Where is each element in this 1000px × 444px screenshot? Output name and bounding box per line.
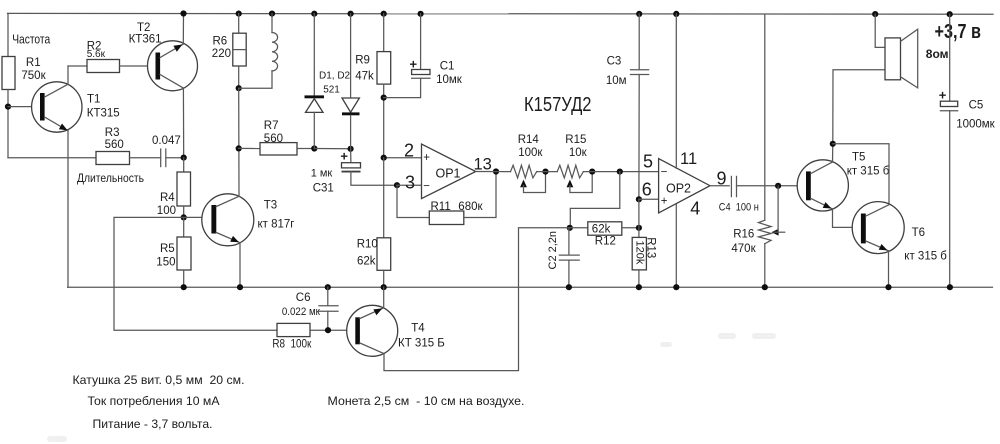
wire collector link xyxy=(833,144,889,205)
transistor T6 base bar xyxy=(861,214,866,244)
svg-text:R14: R14 xyxy=(518,134,540,146)
label T4 xyxy=(411,322,425,334)
potentiometer R15 xyxy=(557,134,592,192)
label R2 xyxy=(87,40,102,52)
svg-text:Ток потребления 10 мА: Ток потребления 10 мА xyxy=(88,394,220,408)
svg-text:+3,7 в: +3,7 в xyxy=(935,21,982,43)
note coil spec xyxy=(73,373,245,387)
svg-text:R12: R12 xyxy=(595,236,616,248)
svg-text:R9: R9 xyxy=(355,54,370,66)
svg-text:R6: R6 xyxy=(213,36,228,48)
inductor coil L1 xyxy=(239,14,278,89)
node pin13 output junction xyxy=(493,168,499,174)
svg-text:2: 2 xyxy=(404,141,414,161)
wire T4 emitter riser xyxy=(384,228,570,371)
label pin 3 xyxy=(405,173,415,193)
node pin4 on ground rail xyxy=(673,284,679,290)
resistor R9 xyxy=(355,14,391,84)
svg-text:C31: C31 xyxy=(313,182,334,194)
svg-text:5: 5 xyxy=(643,151,653,171)
label pin 2 xyxy=(404,141,414,161)
svg-text:OP1: OP1 xyxy=(436,167,461,181)
wire R12 to R13 node xyxy=(622,227,639,229)
label T5 xyxy=(852,151,865,163)
svg-text:Монета 2,5 см - 10 см на возд: Монета 2,5 см - 10 см на воздухе. xyxy=(328,394,525,408)
transistor T5 collector xyxy=(811,162,833,174)
wire node to R7 xyxy=(239,147,260,149)
svg-text:521: 521 xyxy=(323,84,340,95)
wire C 0.047 to node xyxy=(166,157,184,159)
svg-text:1000мк: 1000мк xyxy=(956,119,995,131)
node R14 wiper junction xyxy=(542,169,548,175)
svg-text:R10: R10 xyxy=(357,239,378,251)
label KT315 xyxy=(87,108,120,120)
node R15 wiper junction xyxy=(589,169,595,175)
transistor T5 emitter xyxy=(811,199,833,209)
node pin6 junction xyxy=(636,196,642,202)
svg-text:R8 100к: R8 100к xyxy=(272,338,312,350)
node pin3 junction xyxy=(394,182,422,188)
wire pin11 power xyxy=(675,14,677,168)
svg-text:T2: T2 xyxy=(137,22,150,34)
node R5 on ground rail xyxy=(181,284,187,290)
svg-text:560: 560 xyxy=(264,133,283,145)
svg-text:C4 100 н: C4 100 н xyxy=(719,202,759,214)
node R9 top on rail xyxy=(381,11,387,17)
node coil top on rail xyxy=(269,11,275,17)
svg-text:4: 4 xyxy=(690,198,700,218)
node T3 base junction xyxy=(181,214,187,220)
transistor T2 circle xyxy=(148,41,198,91)
wire T4 collector up xyxy=(383,287,385,308)
wire R4 bottom xyxy=(183,206,185,217)
transistor T1 circle xyxy=(32,82,82,132)
wire T6 emitter down xyxy=(888,251,890,287)
transistor T3 circle xyxy=(202,194,254,246)
node C3 top on rail xyxy=(636,11,642,17)
wire bottom ground rail xyxy=(68,286,993,288)
svg-text:560: 560 xyxy=(105,139,124,151)
svg-text:120k: 120k xyxy=(633,241,645,265)
wire R5 bottom xyxy=(183,270,185,287)
label 1 мк xyxy=(311,168,333,180)
svg-text:9: 9 xyxy=(717,168,727,188)
svg-text:КТ315: КТ315 xyxy=(87,108,120,120)
svg-text:0.022 мк: 0.022 мк xyxy=(282,306,320,318)
node R10-T4 collector on rail xyxy=(381,284,387,290)
label pin 5 xyxy=(643,151,653,171)
svg-text:КТ361: КТ361 xyxy=(129,34,162,46)
transistor T3 collector xyxy=(216,196,239,206)
label 8ом xyxy=(926,47,949,61)
wire R2 left xyxy=(68,65,87,67)
wire OP1 output xyxy=(476,171,511,173)
node R1-T1 base junction xyxy=(5,104,11,110)
svg-text:C2 2,2n: C2 2,2n xyxy=(547,231,559,270)
wire R10 bottom xyxy=(383,270,385,287)
node C1 top on rail xyxy=(418,11,424,17)
transistor T5 circle xyxy=(797,160,848,211)
svg-text:R13: R13 xyxy=(645,237,657,258)
wire R7 to D1 xyxy=(297,148,314,150)
node C1 branch junction xyxy=(381,95,387,101)
wire pin6 stub xyxy=(639,198,659,200)
node C5 top on rail xyxy=(947,11,953,17)
wire pin4 ground xyxy=(675,204,677,287)
svg-text:T3: T3 xyxy=(264,200,277,212)
transistor T6 circle xyxy=(852,202,904,254)
wire R15 to pin5 xyxy=(583,171,658,173)
note power xyxy=(93,417,213,431)
svg-text:47k: 47k xyxy=(355,70,374,82)
diode D1 xyxy=(305,14,325,149)
svg-text:62k: 62k xyxy=(592,224,611,236)
wire C3 node down xyxy=(638,199,640,228)
transistor T3 emitter xyxy=(216,233,240,243)
node C2 top junction xyxy=(567,225,573,231)
svg-text:100: 100 xyxy=(157,205,176,217)
label +3,7 в xyxy=(935,21,982,43)
wire R6 bottom xyxy=(238,66,240,88)
capacitor C3 xyxy=(606,14,649,199)
svg-text:3: 3 xyxy=(405,173,415,193)
node D1 top on rail xyxy=(311,11,317,17)
wire R6 node down to T3 collector xyxy=(238,88,240,196)
svg-text:1 мк: 1 мк xyxy=(311,168,333,180)
resistor R5 xyxy=(156,217,191,270)
svg-text:+: + xyxy=(661,195,668,207)
svg-text:R15: R15 xyxy=(565,134,586,146)
resistor R13 xyxy=(632,228,656,270)
capacitor C31 xyxy=(340,148,397,185)
resistor R7 xyxy=(260,120,297,155)
node pin2 junction xyxy=(381,155,387,161)
wire R2 to T2 base xyxy=(120,65,156,67)
op-amp OP2 xyxy=(659,159,710,213)
wire left rail upper xyxy=(7,13,9,56)
svg-text:+: + xyxy=(423,152,430,164)
speaker LS1 xyxy=(885,29,918,88)
svg-text:+: + xyxy=(340,148,348,163)
label T4 type xyxy=(398,338,445,350)
node pin11 on rail xyxy=(673,11,679,17)
wire pin2 input xyxy=(384,157,422,159)
label T3 xyxy=(264,200,277,212)
capacitor C6 xyxy=(282,287,338,330)
resistor R1 xyxy=(2,57,47,90)
wire T3 base xyxy=(114,217,277,330)
svg-text:10м: 10м xyxy=(606,75,627,87)
node D2 top on rail xyxy=(348,11,354,17)
svg-text:R5: R5 xyxy=(160,243,175,255)
wire T5 emitter to T6 base xyxy=(833,209,861,228)
label T5 type xyxy=(847,166,890,178)
svg-text:T6: T6 xyxy=(912,227,925,239)
transistor T4 base bar xyxy=(355,317,360,344)
wire R8 to T4 base xyxy=(310,329,355,331)
label Частота xyxy=(12,33,50,47)
svg-text:кт 315 б: кт 315 б xyxy=(847,166,890,178)
svg-text:Питание - 3,7 вольта.: Питание - 3,7 вольта. xyxy=(93,417,213,431)
transistor T2 base bar xyxy=(156,53,161,80)
node R7 branch junction xyxy=(236,145,242,151)
label KT361 xyxy=(129,34,162,46)
svg-text:R1: R1 xyxy=(26,57,41,69)
transistor T6 emitter xyxy=(866,241,889,251)
transistor T4 collector xyxy=(360,308,384,319)
svg-text:+: + xyxy=(939,88,947,103)
svg-text:8ом: 8ом xyxy=(926,47,949,61)
wire T3 emitter down xyxy=(239,243,241,288)
capacitor C2 xyxy=(547,228,579,287)
svg-text:Катушка 25 вит. 0,5 мм 20 см.: Катушка 25 вит. 0,5 мм 20 см. xyxy=(73,373,245,387)
label T2 xyxy=(137,22,150,34)
transistor T2 collector xyxy=(160,75,183,89)
diode D2 xyxy=(342,14,360,149)
potentiometer R14 xyxy=(511,134,546,192)
svg-text:220: 220 xyxy=(212,48,231,60)
node T2 emitter on rail xyxy=(180,10,186,16)
node C2 on ground rail xyxy=(566,284,572,290)
resistor R11 feedback xyxy=(397,172,496,225)
wire left to R3 xyxy=(8,157,96,159)
wire T1 emitter down xyxy=(67,131,69,288)
node T5 base junction xyxy=(775,183,781,189)
resistor R4 xyxy=(157,158,191,218)
label 521 xyxy=(323,84,340,95)
svg-text:11: 11 xyxy=(680,150,697,168)
svg-text:кт 817г: кт 817г xyxy=(258,218,295,230)
svg-text:К157УД2: К157УД2 xyxy=(524,94,592,116)
svg-text:10мк: 10мк xyxy=(436,74,463,86)
svg-text:−: − xyxy=(661,166,668,178)
label pin 9 xyxy=(717,168,727,188)
svg-text:470к: 470к xyxy=(731,243,756,255)
transistor T4 circle xyxy=(347,305,398,356)
label D1, D2 xyxy=(319,71,351,82)
svg-text:C5: C5 xyxy=(969,100,984,112)
node D2-C31 junction xyxy=(348,146,354,152)
label 0.047 xyxy=(152,135,181,147)
svg-text:10к: 10к xyxy=(569,147,588,159)
resistor R2 xyxy=(87,60,120,73)
node R16 on ground rail xyxy=(762,284,768,290)
node D1 bottom junction xyxy=(311,145,317,151)
capacitor 0.047 xyxy=(161,149,166,167)
smudge artifacts xyxy=(47,333,776,442)
transistor T1 base bar xyxy=(40,93,45,121)
wire R14 to R15 xyxy=(537,171,558,173)
capacitor C1 xyxy=(384,14,463,98)
node pin5 loop junction xyxy=(617,169,623,175)
label R3 xyxy=(105,127,120,139)
resistor R8 xyxy=(272,323,312,350)
potentiometer R16 xyxy=(731,14,784,287)
svg-text:кт 315 б: кт 315 б xyxy=(904,250,947,262)
label R3 value 560 xyxy=(105,139,124,151)
node T3 emitter on rail xyxy=(237,284,243,290)
resistor R10 xyxy=(357,158,391,271)
wire pin5 feedback loop xyxy=(570,172,620,228)
label Длительность xyxy=(77,171,144,185)
svg-text:Длительность: Длительность xyxy=(77,171,144,185)
svg-text:100к: 100к xyxy=(518,147,543,159)
wire R3 to C 0.047 xyxy=(130,157,161,159)
svg-text:T4: T4 xyxy=(411,322,425,334)
node C6 top on rail xyxy=(325,284,331,290)
wire speaker top terminal xyxy=(875,14,885,47)
node speaker top on rail xyxy=(872,11,878,17)
svg-text:T1: T1 xyxy=(87,93,100,105)
svg-text:150: 150 xyxy=(156,256,175,268)
transistor T6 collector xyxy=(866,205,889,216)
svg-text:T5: T5 xyxy=(852,151,865,163)
svg-text:R3: R3 xyxy=(105,127,120,139)
node coil-R6 junction xyxy=(236,85,242,91)
op-amp OP1 xyxy=(422,144,476,199)
capacitor C5 xyxy=(939,14,996,287)
svg-text:R7: R7 xyxy=(264,120,279,132)
label pin 4 xyxy=(690,198,700,218)
label pin 13 xyxy=(474,156,492,174)
label 5.6k xyxy=(87,49,106,60)
svg-text:C1: C1 xyxy=(440,61,455,73)
wire C4 to T5 base xyxy=(737,185,807,187)
svg-text:R16: R16 xyxy=(733,229,754,241)
wire R13 bottom xyxy=(638,270,640,287)
svg-text:C3: C3 xyxy=(607,55,622,67)
node C5 on ground rail xyxy=(947,284,953,290)
label kt817 xyxy=(258,218,295,230)
transistor T3 base bar xyxy=(211,205,216,234)
svg-text:R11: R11 xyxy=(431,201,451,213)
note current xyxy=(88,394,220,408)
transistor T1 collector xyxy=(45,66,68,97)
svg-text:680к: 680к xyxy=(458,201,483,213)
node R4 top junction xyxy=(181,155,187,161)
svg-text:+: + xyxy=(410,57,418,72)
resistor R3 xyxy=(96,152,130,165)
svg-text:R4: R4 xyxy=(160,192,175,204)
note coin range xyxy=(328,394,525,408)
wire OP2 output xyxy=(710,185,729,187)
node R12-R13 junction xyxy=(636,225,642,231)
label T6 xyxy=(912,227,925,239)
label pin 11 xyxy=(680,150,697,168)
svg-text:6: 6 xyxy=(642,180,652,200)
resistor R6 xyxy=(212,14,246,66)
node T5-T6 collector junction xyxy=(830,141,836,147)
node R6 top on rail xyxy=(236,11,242,17)
transistor T2 emitter xyxy=(160,44,183,58)
label C31 xyxy=(313,182,334,194)
label К157УД2 xyxy=(524,94,592,116)
transistor T5 base bar xyxy=(806,171,811,200)
wire T2 collector down xyxy=(182,88,184,158)
capacitor C4 xyxy=(719,176,759,213)
wire T2 emitter up xyxy=(182,14,184,45)
node C6 bottom junction xyxy=(325,327,331,333)
label T1 xyxy=(87,93,100,105)
wire speaker bottom terminal xyxy=(833,70,885,144)
wire R9 bottom xyxy=(383,84,385,158)
wire +3.7V top rail xyxy=(8,12,994,15)
wire C2 node to R12 xyxy=(570,227,588,229)
svg-text:5.6к: 5.6к xyxy=(87,49,106,60)
transistor T4 emitter xyxy=(360,343,384,354)
transistor T1 emitter xyxy=(45,117,68,131)
svg-text:OP2: OP2 xyxy=(666,181,691,195)
svg-text:750к: 750к xyxy=(21,70,46,82)
resistor R12 xyxy=(588,222,622,248)
svg-text:0.047: 0.047 xyxy=(152,135,181,147)
wire D1 to D2 node xyxy=(314,148,350,150)
wire left rail lower xyxy=(7,90,9,158)
svg-text:Частота: Частота xyxy=(12,33,50,47)
node R13 on ground rail xyxy=(636,284,642,290)
label T6 type xyxy=(904,250,947,262)
wire T5 collector up xyxy=(832,144,834,162)
svg-text:D1, D2: D1, D2 xyxy=(319,71,351,82)
svg-text:−: − xyxy=(423,181,430,193)
wire T1 base xyxy=(8,106,40,108)
svg-text:КТ 315 Б: КТ 315 Б xyxy=(398,338,445,350)
svg-text:C6: C6 xyxy=(296,292,311,304)
node T6 emitter on rail xyxy=(885,284,891,290)
svg-text:62k: 62k xyxy=(357,255,376,267)
label pin 6 xyxy=(642,180,652,200)
